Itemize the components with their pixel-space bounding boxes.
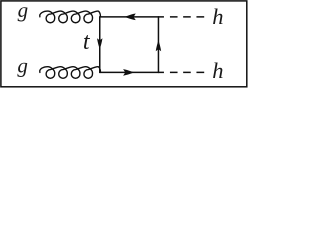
wire: bottom fermion line of box	[100, 71, 159, 73]
svg-text:h: h	[212, 4, 223, 29]
gluon g1 (top incoming) curly line	[40, 11, 101, 23]
arrow on left line (pointing down)	[97, 38, 102, 49]
gluon g2 (bottom incoming) curly line	[40, 67, 101, 79]
frame border	[1, 1, 247, 87]
svg-text:g: g	[18, 0, 29, 22]
dashed higgs line (top)	[158, 16, 204, 18]
wire: right fermion line of box	[157, 17, 159, 73]
arrow on bottom line (pointing right)	[123, 69, 134, 76]
svg-text:h: h	[212, 58, 223, 83]
wire: left fermion line (top quark t)	[99, 17, 101, 73]
arrow on top line (pointing left)	[125, 14, 136, 21]
svg-text:g: g	[17, 54, 28, 78]
wire: top fermion line of box	[100, 16, 159, 18]
dashed higgs line (bottom)	[158, 71, 204, 73]
svg-text:t: t	[83, 29, 91, 55]
arrow on right line (pointing up)	[156, 40, 161, 51]
